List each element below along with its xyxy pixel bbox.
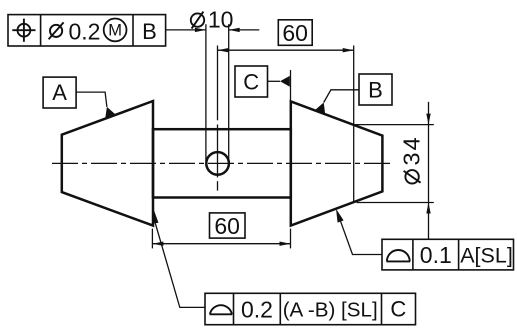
feature control frame: profile 0.2 (A-B)[SL] C xyxy=(205,293,416,324)
datum A square label xyxy=(43,77,76,108)
dia10 left extension line xyxy=(205,24,207,161)
svg-text:0.2: 0.2 xyxy=(69,18,101,44)
bottom 60 dimension line xyxy=(152,243,290,245)
dia34 top extension line xyxy=(355,124,434,126)
svg-text:B: B xyxy=(142,19,157,44)
position symbol xyxy=(12,19,35,42)
svg-text:0.2: 0.2 xyxy=(241,296,273,322)
svg-text:B: B xyxy=(368,77,383,102)
top 60 boxed label xyxy=(278,20,312,46)
extension line at 60 through right cone xyxy=(353,46,355,202)
right cone (frustum) outline xyxy=(291,101,383,225)
dia10 right extension line xyxy=(228,24,230,161)
datum A triangle xyxy=(105,107,116,119)
svg-text:A[SL]: A[SL] xyxy=(460,243,513,267)
profile of surface symbol (right FCF) xyxy=(387,250,411,261)
svg-text:10: 10 xyxy=(208,7,234,33)
svg-text:60: 60 xyxy=(282,20,308,46)
datum C square label xyxy=(235,66,268,97)
bottom 60 right extension line xyxy=(290,229,292,249)
dia10 dimension line left part (leader from FCF) xyxy=(166,29,206,31)
M modifier (circled M) xyxy=(104,19,127,42)
dia34 label (rotated) xyxy=(398,135,424,183)
svg-text:0.1: 0.1 xyxy=(420,242,452,268)
leader to left cone surface xyxy=(155,223,205,308)
feature control frame: position dia0.2(M) B xyxy=(8,15,166,46)
svg-text:M: M xyxy=(108,22,122,40)
feature control frame: profile 0.1 A[SL] xyxy=(382,239,514,270)
left cone (frustum) outline xyxy=(62,101,153,226)
svg-text:C: C xyxy=(390,297,406,322)
bottom 60 left extension line xyxy=(151,229,153,249)
dia34 dimension line xyxy=(428,102,430,239)
datum B triangle xyxy=(315,103,325,115)
leader to right cone surface xyxy=(340,220,382,254)
dia10 label xyxy=(191,12,204,29)
profile of surface symbol (bottom FCF) xyxy=(210,305,233,314)
datum C triangle xyxy=(280,76,290,87)
datum B square label xyxy=(359,74,392,105)
vertical centerline of hole / extension line for 60 dim xyxy=(217,46,219,121)
datum C leader xyxy=(268,80,281,82)
datum A leader xyxy=(76,92,107,107)
horizontal centerline xyxy=(52,162,393,164)
svg-text:60: 60 xyxy=(214,213,240,239)
dia 0.2 value xyxy=(49,22,64,39)
bottom 60 boxed label xyxy=(210,213,246,238)
svg-text:A: A xyxy=(52,80,67,105)
svg-text:34: 34 xyxy=(398,135,424,165)
svg-text:(A -B) [SL]: (A -B) [SL] xyxy=(283,298,378,321)
svg-text:C: C xyxy=(243,69,259,94)
middle cylinder outline xyxy=(153,129,291,197)
top 60 dimension line xyxy=(218,49,354,51)
datum C extension line above right cone edge xyxy=(290,70,292,101)
dia10 dimension line right part xyxy=(229,29,260,31)
hole circle xyxy=(206,152,229,175)
dia34 bottom extension line xyxy=(357,202,434,204)
datum B leader xyxy=(324,90,359,103)
